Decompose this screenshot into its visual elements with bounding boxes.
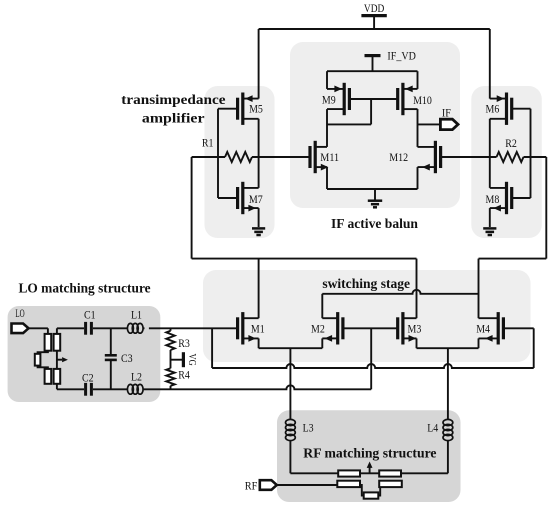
svg-text:IF: IF (442, 106, 451, 119)
svg-text:L2: L2 (131, 370, 142, 383)
svg-text:transimpedance: transimpedance (121, 92, 225, 107)
svg-text:C3: C3 (121, 352, 133, 365)
svg-text:R2: R2 (505, 137, 517, 150)
svg-text:L1: L1 (131, 309, 142, 322)
svg-text:M12: M12 (389, 151, 408, 164)
svg-text:M3: M3 (408, 323, 422, 336)
svg-text:L3: L3 (303, 422, 314, 435)
svg-text:C1: C1 (84, 309, 96, 322)
svg-text:M5: M5 (249, 103, 263, 116)
svg-text:M2: M2 (311, 323, 325, 336)
svg-text:IF_VD: IF_VD (387, 50, 416, 63)
svg-text:LO: LO (15, 307, 24, 320)
svg-text:amplifier: amplifier (142, 111, 205, 126)
svg-text:M8: M8 (486, 193, 500, 206)
svg-text:LO matching structure: LO matching structure (19, 281, 151, 296)
svg-text:M9: M9 (322, 94, 336, 107)
svg-text:L4: L4 (427, 422, 438, 435)
svg-text:M1: M1 (251, 323, 265, 336)
svg-text:R4: R4 (178, 369, 190, 382)
svg-text:IF active balun: IF active balun (331, 216, 418, 231)
svg-text:M11: M11 (320, 151, 339, 164)
svg-text:switching stage: switching stage (322, 276, 410, 291)
svg-text:VG: VG (186, 354, 198, 366)
svg-text:VDD: VDD (364, 2, 384, 15)
svg-text:RF matching structure: RF matching structure (303, 446, 436, 461)
svg-text:M4: M4 (476, 323, 490, 336)
svg-text:M7: M7 (249, 193, 263, 206)
svg-text:C2: C2 (82, 372, 94, 385)
svg-text:M10: M10 (413, 94, 432, 107)
svg-text:M6: M6 (486, 103, 500, 116)
svg-text:R3: R3 (178, 337, 190, 350)
svg-text:R1: R1 (202, 136, 214, 149)
svg-text:RF: RF (245, 479, 258, 492)
